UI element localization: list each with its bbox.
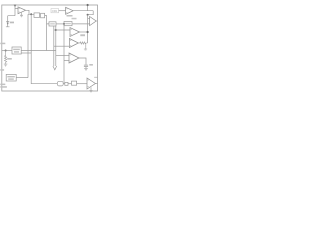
block C3 bottom row — [72, 81, 77, 85]
wire thermal row lower to bus L2 — [21, 52, 31, 54]
svg-text:OPA: OPA — [52, 9, 58, 13]
op-amp U2 label OPA — [51, 9, 59, 13]
funnel arrow to ground — [53, 66, 57, 70]
wire U5 input — [54, 45, 70, 47]
node dot — [55, 29, 57, 31]
block B3 — [49, 22, 56, 26]
resistor R1 — [5, 51, 7, 64]
op-amp U1 — [18, 7, 26, 14]
wire U2 output to top border and right — [73, 5, 93, 15]
node junction dot — [30, 13, 32, 15]
resistor R2 on U5 output — [78, 42, 87, 44]
ground under C1 — [84, 68, 88, 70]
pin label text left border y22 — [0, 43, 5, 45]
wire B4 to op-amp U3 input — [72, 23, 90, 25]
wire U3 input stub and output stub — [88, 19, 98, 21]
wire feedback stub right border — [94, 76, 97, 78]
node VDD arrow on top border — [14, 5, 17, 8]
op-amp U5 inverting — [69, 39, 78, 48]
wire chain to B3 — [45, 16, 49, 24]
wire thermal row — [21, 50, 56, 52]
op-amp U6 mid — [69, 53, 79, 63]
node dot on top border — [87, 4, 89, 6]
wire input vertical to op-amp U1 — [8, 5, 18, 16]
op-amp U2 — [66, 7, 74, 14]
wire bus L2 — [31, 14, 57, 83]
label R2 value — [80, 34, 85, 36]
wire C1 to C2 — [63, 83, 65, 85]
block C2 small square — [65, 82, 68, 85]
wire U6 + input — [56, 55, 69, 57]
wire U1 output — [26, 10, 34, 14]
wire C2 to C3 — [68, 83, 72, 85]
wire OPA to U2 — [59, 10, 66, 12]
pin label text left y86.5 — [0, 86, 7, 88]
ground under U1 — [20, 13, 23, 17]
label above B4 — [67, 15, 73, 17]
wire to U7 — [77, 83, 87, 85]
wire bus x63 — [63, 24, 65, 83]
block B1 — [34, 13, 40, 18]
label Bias — [10, 22, 14, 24]
pin label text left y84 — [0, 84, 5, 86]
block B2 — [41, 13, 45, 17]
wire B3 to B4 — [56, 23, 64, 25]
label R1 value — [7, 58, 12, 60]
wire U4 output to bus — [80, 31, 88, 33]
wire U6 - input — [64, 60, 69, 62]
label C1 value — [89, 64, 93, 66]
wire right bus vertical — [87, 15, 89, 43]
current source I1 with arrow — [6, 16, 10, 27]
capacitor C1 — [84, 65, 88, 68]
op-amp U3 output stage top — [90, 17, 97, 26]
ground under R1 — [4, 64, 8, 66]
pin label text left y69 — [0, 69, 4, 71]
wire U6 output — [79, 58, 86, 65]
node dot U4 out — [87, 31, 89, 33]
wire bus mid-left drop — [46, 24, 48, 51]
wire border to thermal box — [2, 50, 12, 52]
ground bar below R2 — [84, 43, 87, 50]
IC boundary box — [2, 5, 98, 91]
block thermal logic — [12, 47, 21, 54]
wire bus L1 — [27, 14, 29, 77]
op-amp U4 — [70, 28, 80, 37]
block B4 — [64, 22, 72, 26]
node dot left — [5, 50, 7, 52]
ground under U7 — [89, 87, 92, 92]
block shutdown logic — [6, 74, 16, 81]
block C1 bottom row oval — [57, 81, 63, 86]
wire U4 + input — [54, 29, 70, 31]
wire U7 output to border — [95, 83, 97, 85]
wire bottom-left from shutdown box — [16, 77, 28, 79]
node junction dot bus — [63, 23, 65, 25]
wire bus mid pair — [54, 26, 56, 66]
op-amp U7 — [87, 78, 95, 89]
node dot mid — [87, 14, 89, 16]
